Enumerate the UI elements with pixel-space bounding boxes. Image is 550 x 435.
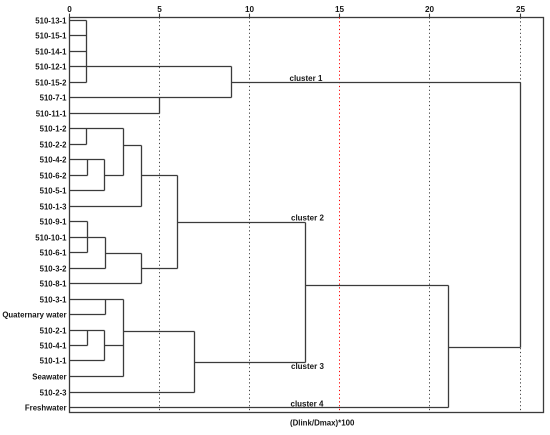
leaf line 510-2-3 <box>70 392 195 394</box>
bracket I <box>177 176 179 269</box>
exit link h <box>306 285 449 287</box>
svg-text:cluster 3: cluster 3 <box>291 362 324 371</box>
leaf line 510-6-2 <box>70 175 88 177</box>
bracket F <box>87 160 89 176</box>
svg-text:510-12-1: 510-12-1 <box>35 62 67 71</box>
bracket A <box>86 21 88 83</box>
svg-text:Freshwater: Freshwater <box>25 403 67 412</box>
leaf line Freshwater cluster 4 <box>70 407 449 409</box>
leaf line 510-3-2 <box>70 268 106 270</box>
root bracket <box>520 83 522 348</box>
exit link f <box>105 345 124 347</box>
svg-text:510-2-1: 510-2-1 <box>40 326 68 335</box>
svg-text:cluster 2: cluster 2 <box>291 214 324 223</box>
cluster 1 line <box>232 82 521 84</box>
svg-text:510-4-1: 510-4-1 <box>40 341 68 350</box>
exit link b <box>124 145 142 147</box>
bracket L <box>141 254 143 284</box>
svg-text:510-6-2: 510-6-2 <box>40 171 68 180</box>
cluster 2 line <box>178 222 306 224</box>
svg-text:510-2-2: 510-2-2 <box>40 140 68 149</box>
bracket N <box>123 300 125 377</box>
leaf line 510-9-1 <box>70 221 88 223</box>
exit link c <box>142 175 178 177</box>
svg-text:25: 25 <box>516 5 526 14</box>
bracket M <box>105 300 107 315</box>
bracket J <box>87 222 89 253</box>
dotted gridline 5 <box>159 18 161 413</box>
bracket O <box>87 331 89 346</box>
svg-text:5: 5 <box>157 5 162 14</box>
svg-text:510-7-1: 510-7-1 <box>40 93 68 102</box>
leaf line 510-10-1 <box>70 237 106 239</box>
leaf line 510-2-1 <box>70 330 105 332</box>
svg-text:510-3-1: 510-3-1 <box>40 295 68 304</box>
svg-text:10: 10 <box>245 5 255 14</box>
svg-text:Quaternary water: Quaternary water <box>2 310 66 319</box>
svg-text:510-11-1: 510-11-1 <box>36 109 67 118</box>
leaf line 510-15-1 <box>70 35 87 37</box>
leaf line 510-11-1 <box>70 113 160 115</box>
axis tick labels <box>67 5 525 14</box>
svg-text:15: 15 <box>335 5 345 14</box>
svg-text:510-4-2: 510-4-2 <box>40 155 68 164</box>
leaf line 510-7-1 <box>70 97 232 99</box>
leaf line 510-1-1 <box>70 360 105 362</box>
exit link root <box>449 347 521 349</box>
dotted gridline 25 <box>520 18 522 413</box>
exit link a <box>105 175 124 177</box>
leaf line 510-6-1 <box>70 252 88 254</box>
svg-text:510-9-1: 510-9-1 <box>40 217 68 226</box>
plot frame <box>70 18 544 413</box>
svg-text:510-13-1: 510-13-1 <box>35 16 67 25</box>
svg-text:510-5-1: 510-5-1 <box>40 186 68 195</box>
leaf line Quaternary water <box>70 314 106 316</box>
bracket P <box>104 331 106 361</box>
bracket Q <box>194 332 196 393</box>
bracket S <box>448 286 450 408</box>
bracket C <box>231 67 233 98</box>
svg-text:0: 0 <box>67 5 72 14</box>
leaf line 510-13-1 <box>70 20 87 22</box>
bracket B <box>159 98 161 114</box>
leaf line 510-3-1 <box>70 299 124 301</box>
leaf line 510-12-1 <box>70 66 232 68</box>
svg-text:510-15-2: 510-15-2 <box>35 78 67 87</box>
svg-text:510-10-1: 510-10-1 <box>35 233 67 242</box>
svg-text:510-15-1: 510-15-1 <box>35 31 67 40</box>
dotted gridline 20 <box>429 18 431 413</box>
exit link e <box>142 268 178 270</box>
leaf line 510-4-1 <box>70 345 88 347</box>
leaf line 510-1-2 <box>70 128 124 130</box>
leaf line Seawater <box>70 376 124 378</box>
exit link g <box>124 331 195 333</box>
svg-text:510-1-2: 510-1-2 <box>40 124 68 133</box>
dotted gridline 15 red <box>339 18 341 413</box>
svg-text:Seawater: Seawater <box>32 372 66 381</box>
svg-text:510-6-1: 510-6-1 <box>40 248 68 257</box>
cluster labels <box>290 74 325 409</box>
svg-text:510-8-1: 510-8-1 <box>40 279 68 288</box>
exit link d <box>106 253 142 255</box>
leaf line 510-1-3 <box>70 206 142 208</box>
dotted gridline 10 <box>249 18 251 413</box>
svg-text:510-3-2: 510-3-2 <box>40 264 68 273</box>
svg-text:510-1-3: 510-1-3 <box>40 202 68 211</box>
bracket H <box>141 146 143 207</box>
bracket E <box>123 129 125 176</box>
svg-text:cluster 4: cluster 4 <box>291 399 324 408</box>
axis ticks <box>70 14 521 18</box>
leaf line 510-2-2 <box>70 144 87 146</box>
svg-text:510-1-1: 510-1-1 <box>40 356 68 365</box>
bracket R <box>305 223 307 363</box>
leaf line 510-5-1 <box>70 190 105 192</box>
svg-text:510-14-1: 510-14-1 <box>35 47 67 56</box>
bracket D <box>86 129 88 145</box>
svg-text:510-2-3: 510-2-3 <box>40 388 68 397</box>
bracket K <box>105 238 107 269</box>
svg-text:cluster 1: cluster 1 <box>290 74 323 83</box>
bracket G <box>104 160 106 191</box>
leaf line 510-8-1 <box>70 283 142 285</box>
cluster 3 line <box>195 362 306 364</box>
svg-text:(Dlink/Dmax)*100: (Dlink/Dmax)*100 <box>290 418 355 427</box>
dendrogram <box>70 21 521 408</box>
leaf line 510-14-1 <box>70 51 87 53</box>
leaf line 510-15-2 <box>70 82 87 84</box>
leaf line 510-4-2 <box>70 159 105 161</box>
leaf labels <box>2 16 67 412</box>
svg-text:20: 20 <box>425 5 435 14</box>
